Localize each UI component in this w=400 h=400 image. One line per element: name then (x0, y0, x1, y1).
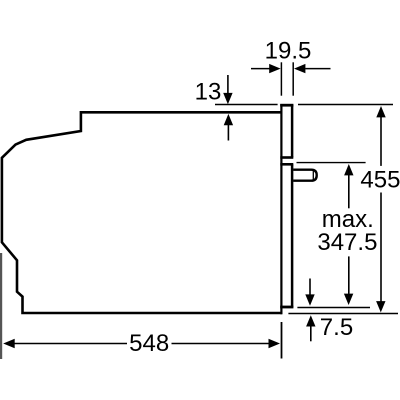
svg-text:548: 548 (129, 330, 169, 357)
dim 548 right arrow (172, 343, 269, 345)
svg-text:19.5: 19.5 (265, 37, 312, 64)
ref line B body bottom (288, 313, 398, 315)
ref line panel-top left (215, 104, 278, 106)
dim 455 line (376, 106, 385, 117)
svg-text:455: 455 (360, 167, 400, 194)
front panel right edge upper (291, 105, 294, 158)
pin end cap line (312, 171, 314, 180)
dim 13 up arrow (227, 125, 229, 141)
ext line 19.5 right (292, 62, 294, 95)
front panel right edge lower (291, 164, 294, 307)
dim 7.5 down arrow (309, 279, 311, 295)
dim 347.5 line (344, 164, 353, 175)
panel crossbar 2 (280, 163, 293, 166)
svg-text:7.5: 7.5 (320, 314, 353, 341)
svg-text:13: 13 (195, 79, 222, 106)
ref line A door bottom (297, 307, 370, 309)
dim 19.5 right arrow (305, 68, 330, 70)
ext line 19.5 left (280, 62, 282, 95)
front panel bottom cap (280, 306, 293, 309)
front panel left edge (280, 104, 282, 314)
ext line 548 left (gray) (0, 253, 2, 359)
dim 548 left arrow (3, 339, 15, 348)
dim 19.5 left arrow (251, 68, 270, 70)
front panel top cap (280, 104, 293, 107)
dim 7.5 up arrow (306, 315, 315, 326)
svg-text:347.5: 347.5 (317, 229, 377, 256)
ref line door seam (297, 162, 366, 164)
dim 13 down arrow (227, 75, 229, 93)
ext line 548 right (281, 322, 283, 359)
hinge pin protrusion (293, 170, 317, 181)
ref line panel-top right (298, 104, 393, 106)
appliance body outline (2, 112, 282, 313)
panel crossbar 1 (280, 156, 293, 159)
